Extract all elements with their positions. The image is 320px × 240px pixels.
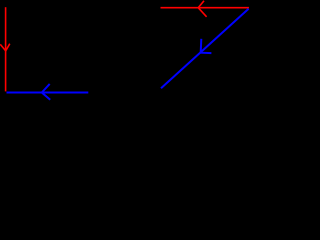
vector V3 red leftward shaft (right diagram) bbox=[161, 7, 249, 9]
vector V3 arrowhead bbox=[198, 1, 206, 17]
vector V2 blue leftward shaft (left diagram) bbox=[7, 92, 89, 94]
vector V1 arrowhead bbox=[0, 44, 10, 51]
vector V2 arrowhead bbox=[42, 84, 50, 100]
vector V1 red downward shaft (left diagram) bbox=[5, 7, 7, 91]
vector V4 blue diagonal shaft (right diagram) bbox=[161, 9, 249, 89]
vector V4 arrowhead bbox=[201, 39, 212, 53]
